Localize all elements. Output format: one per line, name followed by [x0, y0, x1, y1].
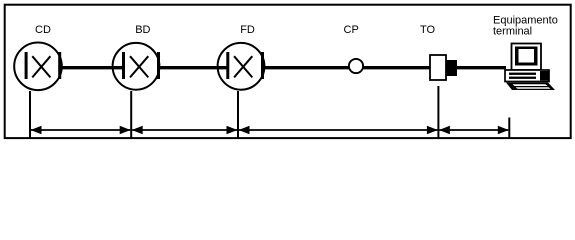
svg-text:CP: CP	[344, 24, 359, 36]
telecom outlet TO	[430, 55, 457, 80]
label FD	[240, 24, 255, 36]
wire main horizontal link	[60, 66, 507, 69]
label CP	[344, 24, 359, 36]
label Equipamento terminal	[493, 15, 558, 38]
extension line below BD	[130, 91, 132, 139]
distributor FD	[218, 43, 265, 90]
svg-text:CD: CD	[35, 24, 51, 36]
extension line right end	[508, 118, 510, 140]
label TO	[420, 24, 436, 36]
extension line below FD	[237, 91, 239, 139]
extension line below CD	[29, 91, 31, 139]
terminal equipment computer	[505, 44, 555, 91]
extension line below TO	[437, 86, 439, 139]
dimension arrow BD-FD	[132, 126, 238, 134]
consolidation point CP	[349, 59, 363, 73]
dimension arrow CD-BD	[31, 126, 131, 134]
distributor BD	[113, 43, 160, 90]
dimension arrow FD-TO	[239, 126, 438, 134]
dimension arrow TO-end	[439, 126, 509, 134]
label BD	[135, 24, 150, 36]
label CD	[35, 24, 51, 36]
svg-text:BD: BD	[135, 24, 150, 36]
svg-text:TO: TO	[420, 24, 436, 36]
svg-text:FD: FD	[240, 24, 255, 36]
svg-text:terminal: terminal	[493, 26, 532, 38]
distributor CD	[14, 43, 62, 91]
